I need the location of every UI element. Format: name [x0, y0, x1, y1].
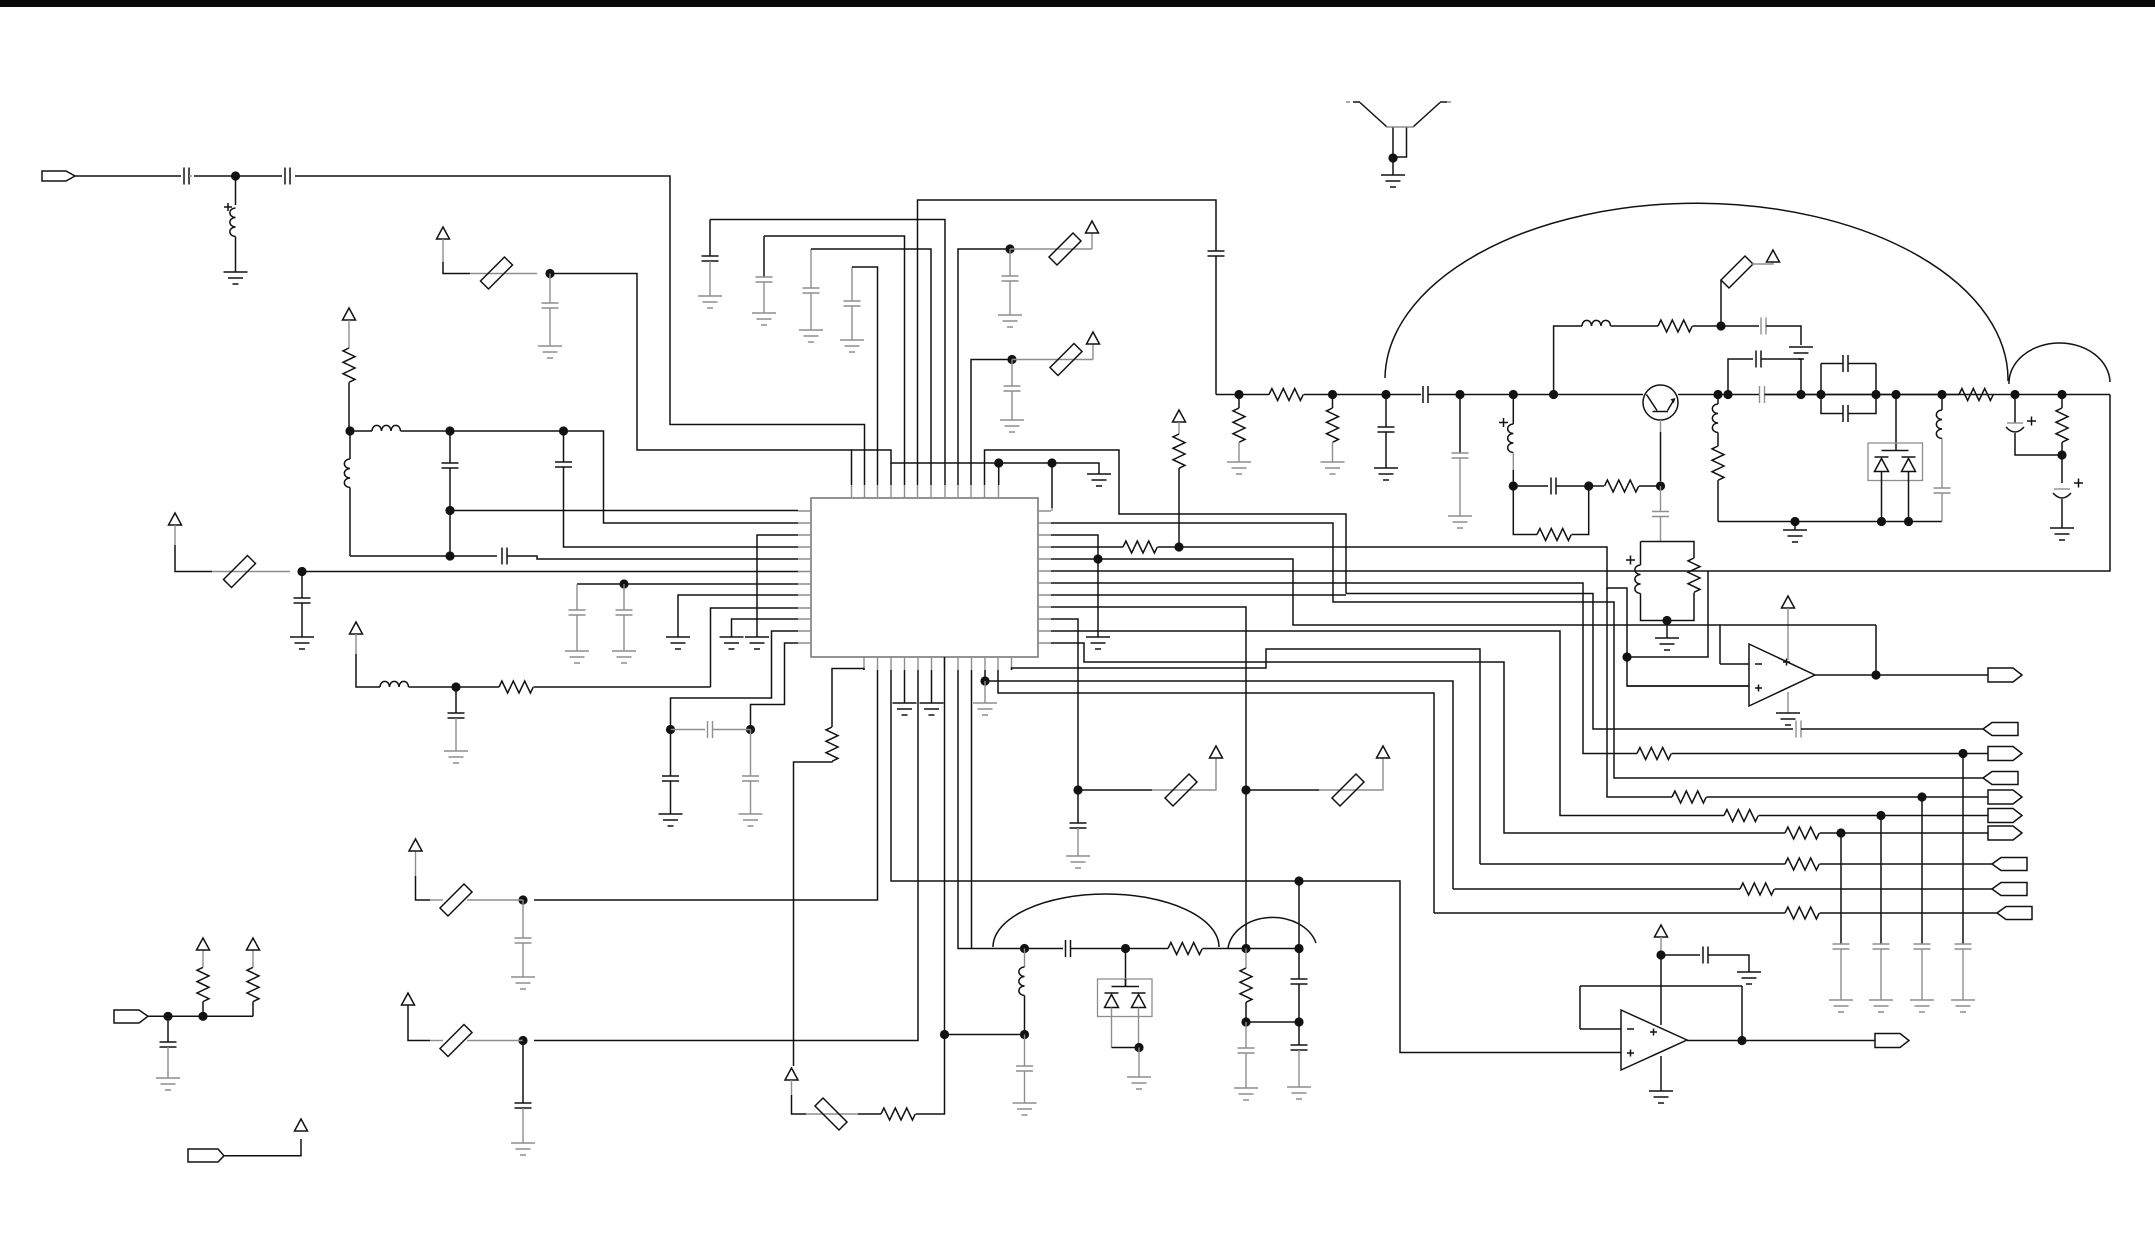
capacitor C8 — [576, 584, 578, 610]
wire pin R2 row 523 chain to row 778 — [1051, 523, 1983, 778]
resistor R12 bus series right — [1765, 394, 1960, 396]
node bus 1386 — [1381, 390, 1390, 399]
wire Ca to pin T8 — [710, 220, 945, 486]
node bus 2015 — [2010, 390, 2019, 399]
wire pin R7 row 583 chain to row 753 — [1051, 583, 1637, 754]
capacitor C10 shunt — [455, 687, 457, 713]
power arrow VCC2 — [343, 308, 356, 320]
resistor R11 below L7 — [1712, 446, 1724, 480]
node bus 1239 — [1234, 390, 1243, 399]
node 670 — [666, 725, 675, 734]
node cap C5 top — [559, 426, 568, 435]
row547 chain down to row 797 — [1607, 588, 1749, 797]
pin B4 ground — [904, 670, 906, 703]
connector tag bottom-left P2 — [114, 1010, 148, 1023]
ground row326 — [1789, 347, 1813, 359]
base loop: node B — [1509, 481, 1518, 490]
capacitor C33 series — [1661, 954, 1700, 956]
node box bottom — [1662, 616, 1671, 625]
tag row 815 — [1988, 809, 2022, 823]
capacitor C24 series row729 — [1796, 721, 1801, 738]
ground pin L10 — [720, 637, 744, 649]
node T10 — [1007, 355, 1016, 364]
bypass capacitor Cb column x764 — [763, 236, 765, 277]
resistor R18 row 815 — [1724, 810, 1758, 822]
bypass capacitor Cd column x852 — [851, 267, 853, 301]
node bus 2062 — [2057, 390, 2066, 399]
ground C8 — [565, 651, 589, 663]
power arrow VCC15 opamp2 — [1655, 925, 1668, 937]
ground opamp2 — [1660, 1056, 1662, 1091]
electrolytic L5 column with + at 1513 — [1499, 418, 1508, 427]
tag row 729 — [1983, 723, 2018, 736]
ground C3 — [538, 346, 562, 358]
capacitor C15 shunt — [1009, 249, 1011, 276]
pin B6 ground — [931, 670, 933, 703]
resistor R13 shunt — [2061, 395, 2063, 409]
upper cap branch — [1728, 359, 1753, 395]
node bottom row — [445, 551, 454, 560]
node opamp plus branch — [1622, 652, 1631, 661]
wire Cd to pin T3 — [852, 267, 878, 485]
feedback loop opamp2 — [1580, 986, 1742, 1037]
node output — [1871, 670, 1880, 679]
ground CE2 — [2050, 528, 2074, 540]
node T9 — [1005, 244, 1014, 253]
bus right corner down to row571 — [1051, 395, 2110, 572]
ferrite bead FB2 — [212, 571, 290, 573]
power arrow VCC13 — [1210, 746, 1223, 758]
node 1179,547 — [1174, 542, 1183, 551]
resistor R26 below 1246 — [1245, 949, 1247, 969]
node bus 1718 collector column — [1713, 390, 1722, 399]
capacitor C11 series between nodes — [671, 729, 706, 731]
node bus 1801 — [1796, 390, 1805, 399]
ground box — [1655, 638, 1679, 650]
node row 572 — [297, 567, 306, 576]
bottom dome arc large — [993, 894, 1219, 947]
wire pin L3 to ground chain — [757, 535, 798, 637]
op-amp U3 lower — [1621, 1010, 1687, 1070]
node bus 1332 — [1328, 390, 1337, 399]
diode pair box lower — [1125, 949, 1127, 987]
capacitor C1 series — [184, 168, 189, 185]
capacitor C32 column 1299 lower — [1298, 1022, 1300, 1045]
capacitor C30 below node — [1245, 1022, 1247, 1048]
capacitor C16 shunt — [1011, 360, 1013, 387]
node row753 — [1958, 749, 1967, 758]
node rail 1795 ground — [1790, 517, 1799, 526]
row 864 resistor R20 — [1480, 863, 1785, 865]
wire row B extension to T4/T12 net — [852, 450, 1100, 474]
ferrite bead FB5 with VCC7 above node1721 — [1720, 280, 1722, 326]
capacitor C18 shunt below 1386 — [1385, 395, 1387, 428]
capacitor C20 series row326 — [1761, 318, 1766, 335]
capacitor C19 shunt below 1460 — [1459, 395, 1461, 454]
node FB1 out — [545, 269, 554, 278]
node row326 — [1716, 321, 1725, 330]
wire to row B drop — [550, 274, 852, 486]
inductor L6 row326 — [1582, 320, 1611, 326]
node P2 b — [198, 1012, 207, 1021]
resistor R3 — [456, 686, 499, 688]
pin B9 drop — [971, 670, 973, 949]
capacitor C34 shunt — [167, 1016, 169, 1042]
op-amp U2 upper — [1749, 644, 1815, 706]
ground C16 — [1000, 420, 1024, 432]
power arrow VCC10 inline — [785, 1068, 798, 1080]
ferrite bead FB1 — [470, 273, 537, 275]
inductor L7 collector load — [1717, 395, 1719, 405]
RF bus y394 — [1216, 394, 1269, 396]
capacitor C7 shunt — [301, 572, 303, 599]
power arrow VCC12 — [408, 1005, 430, 1041]
tag output2 — [1875, 1034, 1909, 1048]
tag row 889 — [1992, 883, 2027, 896]
resistor R28 pullup — [252, 1002, 254, 1017]
capacitor C4 — [449, 431, 451, 463]
wire pin R8 row 595 chain to row 729 — [1051, 594, 1793, 730]
ground pin L3 — [745, 637, 769, 649]
node input junction — [231, 171, 240, 180]
power arrow VCC11 — [416, 876, 431, 900]
node bus 1876 — [1871, 390, 1880, 399]
wire pin R5 row 559 to feedback — [1051, 559, 1720, 625]
bottom pin B1 chain to VCC rail — [832, 669, 864, 728]
wire pin T9 riser — [958, 249, 1010, 485]
wire pin R9 row 607 drop — [1051, 607, 1246, 944]
node row833 — [1836, 828, 1845, 837]
ground C7 — [290, 637, 314, 649]
resistor R6 shunt below 1332 — [1332, 395, 1334, 409]
node 750 — [746, 725, 755, 734]
node P2 a — [163, 1012, 172, 1021]
pin B11 chain row 693 — [998, 670, 1434, 913]
wire pin R11 row 631 chain to row 815 — [1051, 631, 1724, 816]
resistor R25 row948 — [1168, 943, 1202, 955]
capacitor C3 shunt — [549, 274, 551, 304]
ground pin L8 — [666, 637, 690, 649]
power arrow VCC16 — [295, 1119, 308, 1131]
wire row A — [450, 430, 564, 432]
inductor L8 below 1024 — [1024, 949, 1026, 968]
resistor R2 vertical — [348, 320, 350, 348]
node row 584 — [619, 579, 628, 588]
resistor R17 row 753 — [1637, 748, 1671, 760]
IC U1 main controller — [811, 498, 1038, 657]
node D emitter — [1656, 481, 1665, 490]
wire row881 corner to opamp plus — [1299, 881, 1621, 1053]
wire drop to bus — [1215, 256, 1217, 395]
ground for L1 — [224, 272, 248, 284]
node 2062,455 — [2057, 450, 2066, 459]
resistor R9 loop bottom — [1513, 486, 1537, 535]
node cap C4 top — [445, 426, 454, 435]
wire pin T6 riser to top cap drop — [918, 200, 1217, 485]
ground opamp — [1787, 692, 1789, 713]
capacitor C2 series — [285, 168, 290, 185]
wire R1 pin riser — [1051, 463, 1053, 508]
node bus 1728 — [1723, 390, 1732, 399]
pin B5 chain jumper row 1040 — [534, 670, 918, 1041]
node bus 1460 — [1455, 390, 1464, 399]
wire pin L10 elbow — [732, 619, 799, 637]
ground Cb — [752, 313, 776, 325]
wire — [189, 175, 192, 177]
row 889 resistor R21 — [1453, 888, 1740, 890]
inductor L1 shunt with + — [235, 176, 237, 205]
node 523,1040 — [518, 1036, 527, 1045]
ground 462 net — [1087, 474, 1111, 486]
node row797 — [1917, 792, 1926, 801]
resistor R5 shunt below 1239 — [1238, 395, 1240, 409]
resistor R7 row326 — [1658, 320, 1692, 332]
electrolytic CE1 — [2015, 395, 2036, 426]
node row 687 — [451, 682, 460, 691]
pin B8 corner into row 948 — [958, 670, 1024, 949]
capacitor C27 below jumper1 — [1077, 790, 1079, 823]
wire pin R3 row 535 ground chain — [1051, 535, 1098, 637]
inductor L4 — [380, 681, 409, 687]
IC pin stubs right — [1038, 511, 1051, 643]
tag row 753 — [1988, 747, 2022, 761]
node 1661,955 — [1656, 950, 1665, 959]
bottom dome arc small — [1228, 917, 1316, 948]
ground 1098 — [1086, 637, 1110, 649]
resistor R16 row 797 — [1672, 791, 1706, 803]
tag row 778 — [1983, 772, 2018, 785]
diode pair box upper — [1891, 390, 1900, 399]
capacitor C31 column 1299 upper — [1298, 881, 1300, 979]
pin B12 chain row 668 to row 864 — [1012, 649, 1481, 864]
wire riser row687 to pin L9 — [711, 608, 799, 687]
ground C15 — [998, 315, 1022, 327]
power arrow VCC4 row 687 — [350, 622, 363, 634]
node row A left — [345, 426, 354, 435]
IC pin stubs left — [798, 511, 811, 643]
wire T12 pin riser — [998, 463, 1000, 485]
node 1098,559 — [1093, 554, 1102, 563]
tag row 864 — [1992, 858, 2027, 871]
capacitor C12 shunt — [670, 730, 672, 777]
transistor Q1 — [1643, 385, 1678, 420]
capacitor C25 shunt — [522, 900, 524, 938]
wire to resistor R7 — [1611, 325, 1659, 327]
resistor R24 row1114 — [858, 1113, 881, 1115]
capacitor C23 bus series — [1760, 386, 1765, 403]
ground C18 — [1374, 468, 1398, 480]
ferrite bead FB7 — [467, 899, 523, 901]
pin B3 chain row 881 — [891, 670, 1299, 881]
wire input to C1 — [75, 175, 181, 177]
ferrite bead FB8 — [467, 1040, 523, 1042]
node 523,900 — [518, 895, 527, 904]
IC pin stubs top — [852, 485, 999, 498]
resistor R19 row 833 — [1785, 827, 1819, 839]
ferrite bead FB3 — [1010, 248, 1092, 250]
tag output row 675 — [1988, 668, 2022, 682]
electrolytic CE2 — [2062, 455, 2083, 488]
power arrow VCC6 — [1092, 344, 1094, 360]
node bus 1821 — [1816, 390, 1825, 399]
ground R6 — [1321, 462, 1345, 474]
resistor R23 — [826, 727, 838, 761]
node T12 riser — [994, 458, 1003, 467]
wire row A corner to pin L2 — [564, 431, 799, 523]
row 913 resistor R22 — [1434, 912, 1785, 914]
node C4 mid pin L1 — [445, 506, 454, 515]
parallel cap box on bus — [1821, 364, 1876, 414]
ground R5 — [1227, 462, 1251, 474]
ground Cd — [840, 340, 864, 352]
wire pin L8 elbow — [678, 595, 798, 637]
capacitor C21 series — [1513, 485, 1548, 487]
feedback loop — [1720, 625, 1876, 671]
output wire — [1687, 1040, 1875, 1042]
bypass column 1963 from row753 — [1962, 754, 1964, 945]
pin B2 chain jumper row 900 — [534, 670, 878, 900]
capacitor C5 column — [563, 431, 565, 462]
node R1 riser — [1047, 458, 1056, 467]
capacitor C28 series row948 — [1066, 940, 1071, 957]
wire T4 pin riser — [890, 463, 892, 485]
pin B10 chain row 681 — [984, 670, 986, 681]
node bus riser326 — [1549, 390, 1558, 399]
wire pin L12 elbow to node — [751, 643, 799, 725]
wire pin R4 row 547 with resistor R15 — [1051, 546, 1123, 548]
wire bottom row with series cap C6 — [350, 555, 497, 557]
bypass column 1881 from row815 — [1880, 816, 1882, 945]
ground C33 — [1737, 972, 1761, 984]
wire Cc to pin T7 — [811, 249, 931, 485]
top border bar — [0, 0, 2155, 7]
ground C13 — [739, 814, 763, 826]
crystal/antenna symbol top center — [1346, 102, 1451, 175]
node jumper1 on R10 drop — [1073, 785, 1082, 794]
dome arc small right — [2009, 343, 2110, 384]
riser row326 — [1554, 326, 1582, 395]
plus input wire — [1627, 685, 1749, 687]
wire Cb to pin T5 — [764, 236, 905, 485]
bypass column 1922 from row797 — [1921, 797, 1923, 944]
capacitor C9 — [623, 584, 625, 610]
node rail 1908 — [1904, 517, 1913, 526]
bypass column 1841 from row833 — [1840, 833, 1842, 944]
output wire — [1815, 674, 1988, 676]
node C — [1584, 481, 1593, 490]
inductor L2 horizontal — [350, 430, 372, 432]
tag row 913 — [1997, 907, 2032, 920]
resistor R4 bus series — [1269, 389, 1303, 401]
power arrow VCC3 row 572 — [169, 513, 182, 525]
rail 521 — [1718, 521, 1942, 523]
connector P1 input tag top-left — [42, 171, 75, 181]
wire pin L1 row — [450, 510, 798, 512]
wire pin T11 riser chain — [985, 450, 1347, 594]
node row815 — [1876, 811, 1885, 820]
wire pin R10 row 619 drop — [1051, 619, 1078, 788]
box with electrolytic and resistor R10 — [1641, 542, 1695, 621]
node rail 1881 — [1877, 517, 1886, 526]
node row881 — [1294, 876, 1303, 885]
ground C12 — [659, 814, 683, 826]
wire input line to corner x670 — [295, 176, 865, 485]
capacitor C14 series in drop — [1208, 251, 1225, 256]
wire pin R12 row 643 chain to row 833 — [1051, 643, 1785, 833]
capacitor C29 below — [1024, 1035, 1026, 1067]
node output2 — [1737, 1036, 1746, 1045]
capacitor C13 shunt — [750, 730, 752, 777]
IC pin stubs bottom — [864, 657, 1012, 670]
ferrite bead FB10 — [1246, 789, 1319, 791]
ground crystal — [1381, 175, 1405, 187]
capacitor C22 emitter to box — [1660, 486, 1662, 512]
resistor R8 — [1605, 480, 1639, 492]
bypass capacitor Cc column x811 — [810, 249, 812, 288]
connector tag bottom-left P3 — [188, 1149, 224, 1162]
power arrow VCC8 + resistor R14 riser at 1179 — [1173, 410, 1186, 422]
tag row 797 — [1988, 790, 2022, 804]
ferrite bead FB6 mirrored — [806, 1113, 858, 1115]
bypass capacitor Ca column x710 — [709, 220, 711, 257]
ground C10 — [444, 751, 468, 763]
ground C19 — [1448, 516, 1472, 528]
ferrite bead FB4 — [1012, 359, 1093, 361]
ferrite bead FB9 — [1078, 789, 1152, 791]
inductor L3 vertical left column — [344, 459, 350, 488]
power arrow VCC5 — [1091, 233, 1093, 249]
capacitor C17 bus series — [1423, 386, 1428, 403]
power arrow VCC1 top-left — [437, 227, 450, 239]
power arrow VCC9 opamp — [1782, 596, 1795, 608]
node B7 1034 — [940, 1030, 949, 1039]
wire to pin L6 — [302, 571, 798, 573]
ground C9 — [612, 651, 636, 663]
row 948 — [1020, 944, 1029, 953]
tag row 833 — [1988, 826, 2022, 840]
ground Cc — [799, 330, 823, 342]
capacitor C26 shunt — [522, 1041, 524, 1104]
power arrow VCC14 — [1377, 746, 1390, 758]
ground Ca — [698, 296, 722, 308]
wire pin T10 riser — [971, 360, 1012, 486]
node jumper2 on R9 drop — [1241, 785, 1250, 794]
node bus 1942 inductor column — [1937, 390, 1946, 399]
wire pin L7 row 584 — [577, 583, 798, 585]
resistor R27 pullup — [202, 1002, 204, 1017]
wire pin L11 elbow to node — [671, 631, 799, 725]
dome arc large right — [1385, 203, 2008, 381]
node bus elcoA — [1509, 390, 1518, 399]
